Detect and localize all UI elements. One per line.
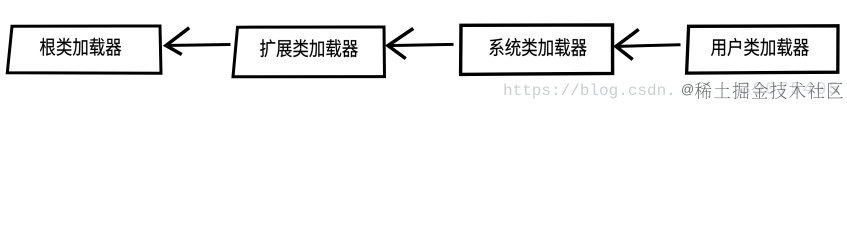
label 根类加载器 (40, 38, 121, 56)
arrow from 系统类加载器 to 扩展类加载器 (388, 29, 452, 57)
arrow from 用户类加载器 to 系统类加载器 (616, 30, 679, 58)
arrow from 扩展类加载器 to 根类加载器 (166, 29, 229, 54)
watermark 稀土掘金技术社区 (juejin community, gray) (695, 82, 843, 99)
box 系统类加载器 (system class loader) (461, 25, 613, 75)
label 扩展类加载器 (260, 39, 358, 57)
svg-text:https://blog.csdn.: https://blog.csdn. (503, 82, 676, 100)
box 根类加载器 (root class loader) (7, 26, 161, 73)
svg-text:@: @ (681, 82, 694, 97)
box 扩展类加载器 (extension class loader) (233, 27, 385, 77)
label 用户类加载器 (711, 38, 809, 56)
box 用户类加载器 (user class loader) (687, 26, 838, 73)
label 系统类加载器 (489, 38, 586, 56)
